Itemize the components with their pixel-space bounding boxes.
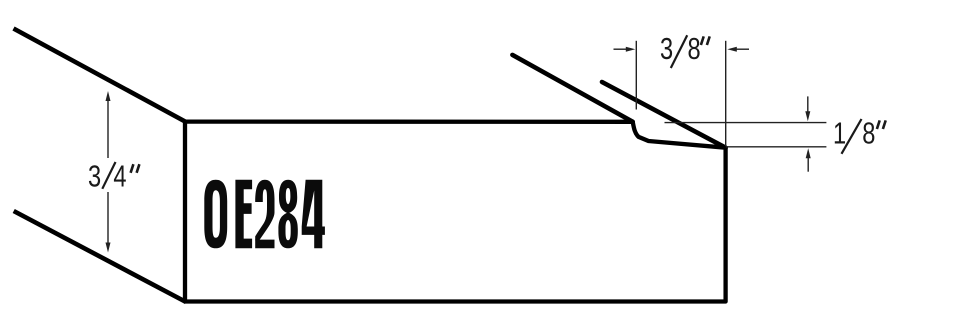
3/8-inch label fraction slash [671, 35, 687, 68]
1/8-inch upper extension line [665, 122, 827, 124]
moulding part number OE284 digit 2 diagonal [255, 201, 274, 240]
3/8-inch right extension line [725, 41, 727, 146]
svg-text:8: 8 [862, 116, 875, 151]
svg-text:3: 3 [88, 159, 101, 194]
svg-text:8: 8 [687, 31, 700, 66]
3/4-inch dimension line lower segment [107, 192, 109, 245]
3/8-inch left extension line [635, 41, 637, 110]
svg-text:3: 3 [660, 31, 673, 66]
svg-text:1: 1 [833, 116, 846, 151]
moulding part number OE284 digit 8 upper lobe [279, 180, 297, 214]
3/4-inch dimension arrowhead down [106, 243, 111, 253]
1/8-inch label fraction slash [842, 119, 862, 154]
bottom-left receding edge of moulding [14, 211, 186, 302]
1/8-inch lower arrow pointing up [807, 157, 809, 172]
top-left receding edge of moulding [14, 29, 187, 123]
moulding part number OE284 letter O [204, 180, 227, 249]
moulding part number OE284 digit 2 bottom bar [255, 240, 274, 249]
3/8-inch left arrow [614, 48, 629, 50]
3/8-inch label [660, 31, 701, 66]
1/8-inch label [833, 116, 875, 151]
3/4-inch label fraction slash [102, 162, 115, 189]
1/8-inch lower extension line [726, 146, 827, 148]
moulding part number OE284 digit 2 top curve [255, 180, 274, 207]
3/4-inch dimension line upper segment [107, 100, 109, 159]
rabbet step receding edge [512, 55, 632, 122]
3/8-inch label inch ticks [701, 36, 704, 45]
3/4-inch label inch ticks [131, 164, 134, 173]
1/8-inch upper arrow pointing down [807, 96, 809, 112]
moulding part number OE284 digit 8 lower lobe [278, 212, 297, 248]
3/4-inch dimension arrowhead up [106, 91, 111, 101]
3/4-inch label [88, 159, 127, 194]
moulding part number OE284 letter E [235, 180, 252, 249]
1/8-inch label inch ticks [877, 120, 880, 129]
3/8-inch right arrow [735, 48, 749, 50]
moulding front profile face with rabbet notch [185, 122, 726, 302]
moulding part number OE284 digit 4 [302, 180, 325, 249]
lip corner receding edge [602, 82, 726, 148]
